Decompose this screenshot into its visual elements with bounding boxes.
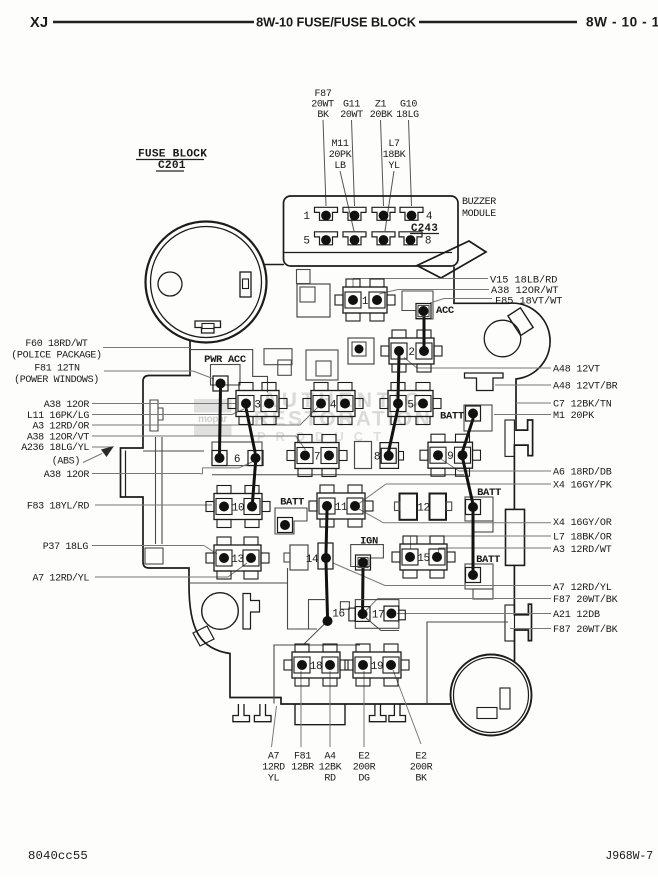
svg-text:F81 12TN: F81 12TN [34,364,80,375]
svg-text:8W-10 FUSE/FUSE BLOCK: 8W-10 FUSE/FUSE BLOCK [256,15,417,30]
svg-text:A21 12DB: A21 12DB [553,610,600,621]
svg-text:L11 16PK/LG: L11 16PK/LG [27,410,90,422]
svg-text:6: 6 [234,454,240,466]
svg-text:BK: BK [317,110,329,121]
svg-text:E2: E2 [415,752,427,763]
svg-text:A236 18LG/YL: A236 18LG/YL [21,442,89,454]
svg-text:5: 5 [303,236,309,248]
svg-text:13: 13 [231,554,244,566]
svg-text:Z1: Z1 [375,100,387,111]
svg-text:12RD: 12RD [262,763,285,774]
svg-text:PWR ACC: PWR ACC [204,354,247,366]
svg-text:17: 17 [372,610,385,622]
svg-text:11: 11 [335,502,348,514]
svg-text:mopar: mopar [198,414,227,425]
svg-text:X4 16GY/OR: X4 16GY/OR [553,517,612,529]
svg-text:F87 20WT/BK: F87 20WT/BK [553,594,619,606]
svg-text:DG: DG [358,774,370,785]
svg-text:YL: YL [388,161,400,172]
svg-text:12: 12 [417,503,430,515]
svg-text:BATT: BATT [440,411,464,423]
svg-text:A38 12OR: A38 12OR [44,400,90,411]
svg-text:ACC: ACC [436,305,455,317]
svg-text:19: 19 [371,661,384,673]
svg-text:A38 12OR/VT: A38 12OR/VT [27,432,90,444]
svg-text:5: 5 [407,400,413,412]
svg-text:2: 2 [408,347,414,359]
svg-text:XJ: XJ [30,15,48,31]
svg-text:BATT: BATT [477,487,501,499]
svg-text:1: 1 [362,296,369,308]
svg-text:C7 12BK/TN: C7 12BK/TN [553,399,612,411]
svg-text:F85 18VT/WT: F85 18VT/WT [495,296,562,308]
svg-text:(POLICE PACKAGE): (POLICE PACKAGE) [11,350,101,362]
svg-text:BK: BK [415,774,427,785]
svg-text:20PK: 20PK [329,150,352,161]
svg-text:A3 12RD/WT: A3 12RD/WT [553,544,612,556]
svg-text:4: 4 [330,400,337,412]
svg-text:F87 20WT/BK: F87 20WT/BK [553,624,619,636]
svg-text:20WT: 20WT [311,100,334,111]
svg-text:M11: M11 [332,139,349,150]
svg-text:BATT: BATT [476,554,500,566]
svg-text:A4: A4 [324,752,336,763]
svg-text:12BR: 12BR [291,763,314,774]
svg-text:9: 9 [447,451,453,463]
svg-text:F83 18YL/RD: F83 18YL/RD [27,501,90,513]
svg-text:12BK: 12BK [319,763,342,774]
svg-text:IGN: IGN [360,536,378,548]
svg-text:8: 8 [374,452,380,464]
svg-text:L7: L7 [388,139,400,150]
svg-text:FUSE BLOCK: FUSE BLOCK [138,149,207,161]
svg-text:16: 16 [332,609,345,621]
svg-text:C201: C201 [158,160,186,172]
svg-text:A7 12RD/YL: A7 12RD/YL [553,582,612,594]
svg-text:YL: YL [268,774,280,785]
svg-text:F87: F87 [315,89,332,100]
svg-text:4: 4 [426,211,433,223]
svg-text:A3 12RD/OR: A3 12RD/OR [32,421,89,433]
svg-text:(POWER WINDOWS): (POWER WINDOWS) [14,374,99,386]
svg-text:MODULE: MODULE [462,209,496,220]
svg-text:LB: LB [334,161,346,172]
svg-text:18BK: 18BK [383,150,406,161]
svg-text:200R: 200R [410,763,433,774]
svg-text:8040cc55: 8040cc55 [28,849,88,863]
svg-text:J968W-7: J968W-7 [605,850,653,863]
svg-text:3: 3 [254,400,260,412]
svg-text:8: 8 [425,236,431,248]
svg-text:E2: E2 [358,752,370,763]
svg-text:M1 20PK: M1 20PK [553,411,595,422]
svg-text:RD: RD [324,774,336,785]
svg-text:10: 10 [232,503,245,515]
svg-text:A6 18RD/DB: A6 18RD/DB [553,467,612,479]
svg-text:200R: 200R [353,763,376,774]
svg-text:F81: F81 [294,752,311,763]
svg-text:(ABS): (ABS) [52,456,80,468]
svg-text:1: 1 [303,211,310,223]
svg-text:15: 15 [417,553,430,565]
svg-text:A48 12VT/BR: A48 12VT/BR [553,381,618,393]
svg-text:7: 7 [314,452,320,464]
svg-text:8W - 10 - 1: 8W - 10 - 1 [586,15,658,30]
svg-text:A7 12RD/YL: A7 12RD/YL [32,573,89,585]
svg-text:20BK: 20BK [370,110,393,121]
svg-text:F60 18RD/WT: F60 18RD/WT [25,338,88,350]
svg-text:14: 14 [306,554,319,566]
svg-text:P37 18LG: P37 18LG [43,542,89,553]
svg-text:L7 18BK/OR: L7 18BK/OR [553,532,612,544]
svg-text:18LG: 18LG [396,110,419,121]
svg-text:BATT: BATT [280,497,304,509]
svg-text:A48 12VT: A48 12VT [553,365,600,376]
svg-text:A7: A7 [268,752,280,763]
svg-text:X4 16GY/PK: X4 16GY/PK [553,480,613,492]
svg-text:G11: G11 [343,100,360,111]
svg-text:BUZZER: BUZZER [462,197,496,208]
svg-text:18: 18 [310,661,323,673]
svg-text:A38 12OR: A38 12OR [44,470,90,481]
svg-text:G10: G10 [400,100,417,111]
svg-text:20WT: 20WT [340,110,363,121]
